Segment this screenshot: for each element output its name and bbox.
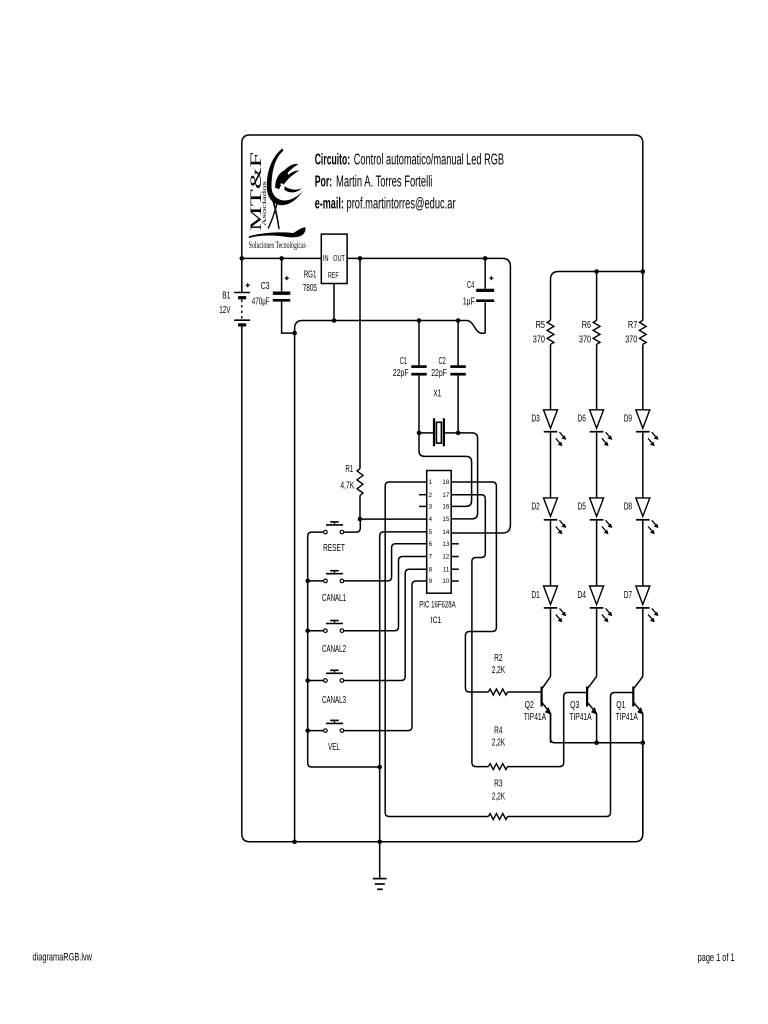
svg-text:2,2K: 2,2K	[492, 791, 506, 802]
svg-text:R3: R3	[494, 778, 503, 789]
svg-text:10: 10	[442, 578, 449, 585]
svg-text:D8: D8	[624, 502, 633, 513]
svg-text:D9: D9	[624, 414, 633, 425]
svg-text:15: 15	[442, 516, 449, 523]
svg-text:3: 3	[429, 504, 433, 511]
svg-text:R1: R1	[345, 464, 353, 475]
svg-text:page 1 of 1: page 1 of 1	[698, 952, 735, 964]
svg-text:R6: R6	[582, 320, 592, 331]
svg-text:IC1: IC1	[431, 615, 442, 626]
svg-text:D7: D7	[624, 590, 633, 601]
svg-text:TIP41A: TIP41A	[616, 712, 639, 723]
svg-text:1: 1	[429, 479, 433, 486]
svg-text:OUT: OUT	[333, 253, 345, 263]
svg-text:R4: R4	[494, 725, 503, 736]
svg-text:D6: D6	[578, 414, 587, 425]
svg-text:470µF: 470µF	[252, 297, 270, 308]
svg-text:12: 12	[442, 554, 449, 561]
svg-text:6: 6	[429, 541, 433, 548]
svg-text:1µF: 1µF	[463, 297, 475, 308]
svg-text:Q2: Q2	[525, 700, 534, 711]
svg-text:370: 370	[625, 335, 638, 346]
svg-text:370: 370	[579, 335, 592, 346]
svg-text:Control automatico/manual Led: Control automatico/manual Led RGB	[354, 152, 504, 169]
svg-text:B1: B1	[222, 291, 230, 302]
svg-text:14: 14	[442, 529, 449, 536]
svg-text:5: 5	[429, 529, 433, 536]
svg-text:prof.martintorres@educ.ar: prof.martintorres@educ.ar	[347, 195, 456, 212]
svg-text:4: 4	[429, 516, 433, 523]
svg-text:D1: D1	[531, 590, 540, 601]
svg-text:e-mail:: e-mail:	[315, 195, 344, 212]
svg-text:C2: C2	[439, 356, 446, 367]
svg-text:9: 9	[429, 578, 433, 585]
svg-text:22pF: 22pF	[431, 368, 447, 379]
svg-text:16: 16	[442, 504, 449, 511]
svg-text:PIC 16F628A: PIC 16F628A	[419, 599, 456, 610]
svg-text:11: 11	[443, 566, 450, 573]
svg-text:REF: REF	[328, 270, 339, 280]
svg-text:8: 8	[429, 566, 433, 573]
svg-text:R2: R2	[494, 653, 503, 664]
svg-text:R5: R5	[536, 320, 546, 331]
svg-text:R7: R7	[628, 320, 638, 331]
svg-text:D5: D5	[578, 502, 587, 513]
svg-text:22pF: 22pF	[393, 368, 409, 379]
svg-text:CANAL3: CANAL3	[322, 694, 346, 706]
svg-text:TIP41A: TIP41A	[569, 712, 592, 723]
svg-text:RESET: RESET	[323, 542, 345, 554]
svg-text:Soluciones Tecnológicas: Soluciones Tecnológicas	[249, 240, 306, 250]
svg-text:D2: D2	[531, 502, 540, 513]
svg-text:18: 18	[442, 479, 449, 486]
svg-text:Circuito:: Circuito:	[315, 152, 351, 169]
svg-text:D3: D3	[531, 414, 540, 425]
svg-text:370: 370	[533, 335, 546, 346]
svg-text:Q1: Q1	[616, 700, 625, 711]
svg-text:CANAL1: CANAL1	[322, 592, 346, 604]
svg-text:2,2K: 2,2K	[492, 665, 506, 676]
svg-text:13: 13	[442, 541, 449, 548]
svg-text:Martin A. Torres Fortelli: Martin A. Torres Fortelli	[336, 174, 432, 191]
svg-text:X1: X1	[433, 388, 441, 399]
svg-text:C3: C3	[261, 281, 270, 292]
svg-text:C1: C1	[400, 356, 407, 367]
svg-text:D4: D4	[578, 590, 587, 601]
svg-text:2,2K: 2,2K	[492, 738, 506, 749]
svg-text:diagramaRGB.lvw: diagramaRGB.lvw	[33, 952, 93, 964]
svg-text:4,7K: 4,7K	[340, 480, 354, 491]
svg-text:7: 7	[429, 554, 433, 561]
svg-text:VEL: VEL	[328, 741, 340, 753]
svg-text:TIP41A: TIP41A	[524, 712, 547, 723]
svg-text:CANAL2: CANAL2	[322, 643, 346, 655]
svg-text:Por:: Por:	[315, 174, 333, 191]
svg-text:7805: 7805	[303, 282, 317, 294]
svg-text:17: 17	[442, 492, 449, 499]
svg-text:Q3: Q3	[570, 700, 579, 711]
svg-text:C4: C4	[467, 280, 474, 291]
svg-text:12V: 12V	[219, 305, 230, 316]
svg-text:RG1: RG1	[304, 268, 317, 280]
svg-text:2: 2	[429, 492, 433, 499]
svg-text:IN: IN	[323, 253, 329, 263]
